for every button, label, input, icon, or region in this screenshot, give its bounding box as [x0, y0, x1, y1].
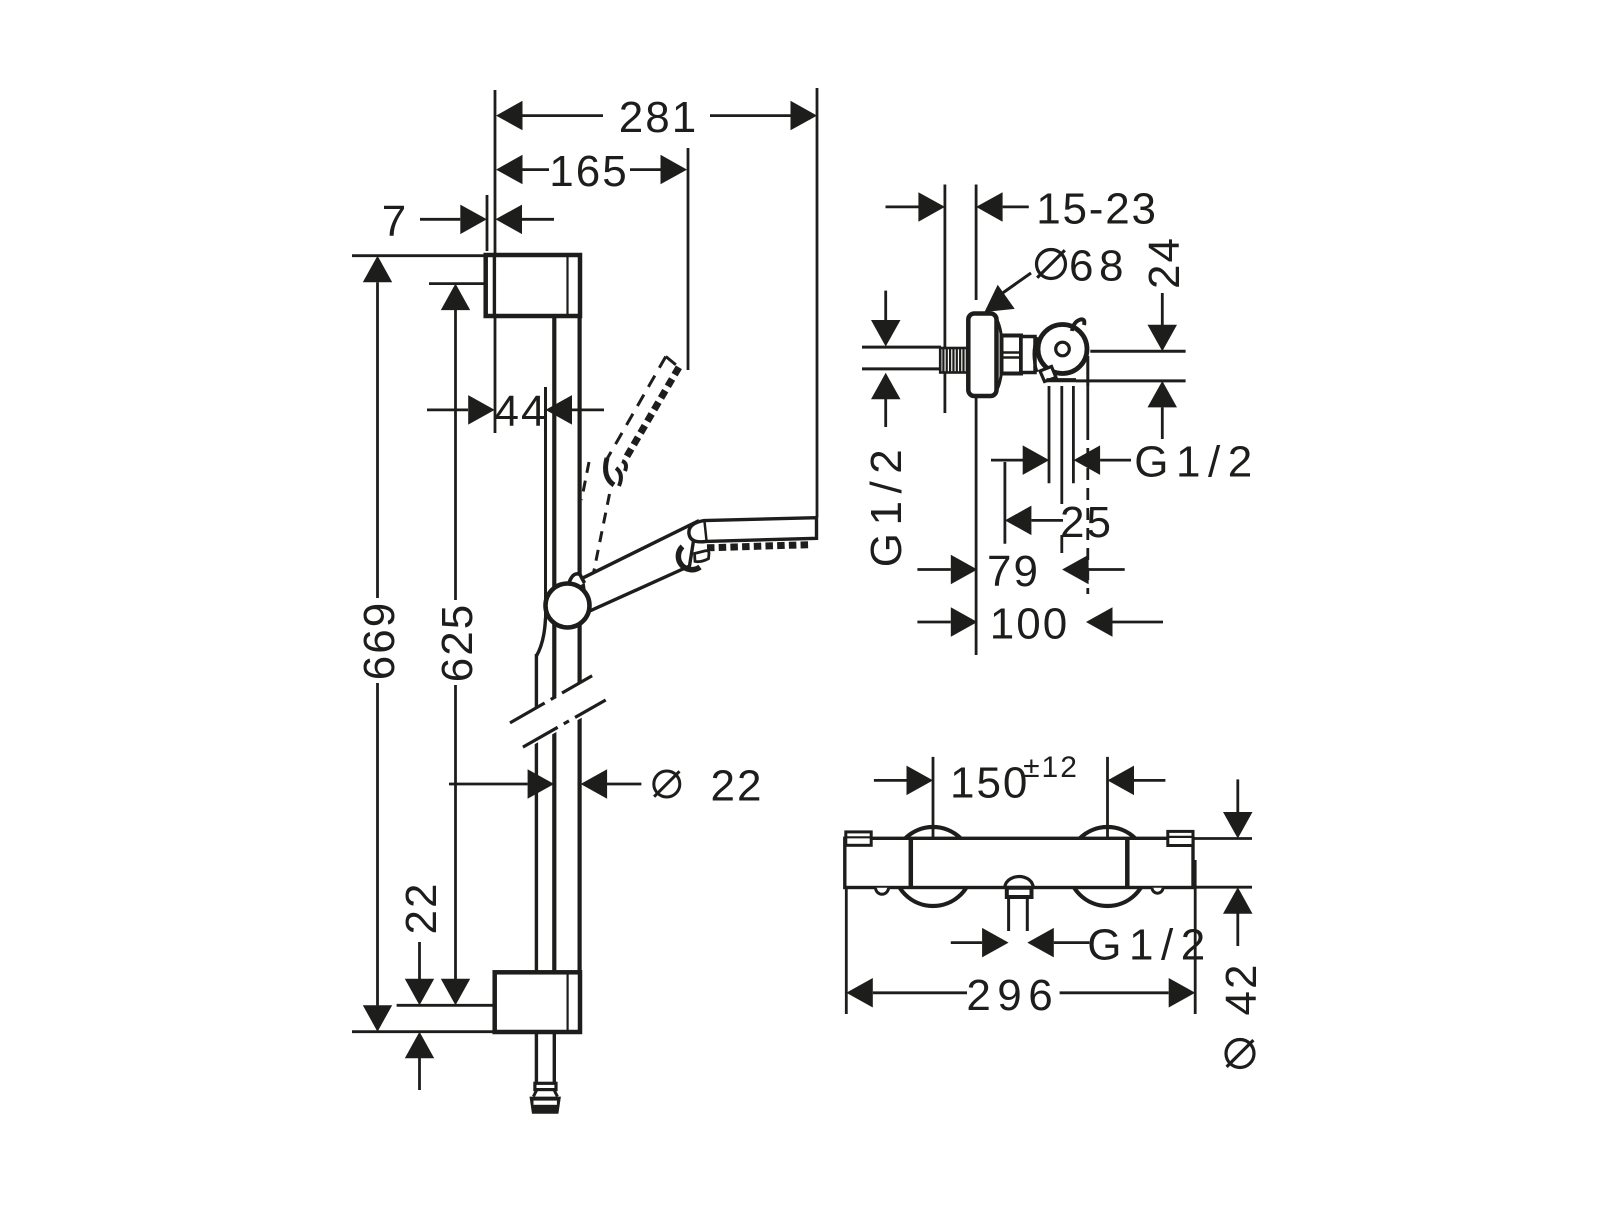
dim 625 line lower [454, 685, 457, 979]
dashed shower spray face teeth [627, 367, 679, 457]
dim 15-23 arrow left [918, 192, 945, 222]
wire: wall line lower [944, 372, 947, 413]
dim dia68 phi symbol [1037, 250, 1066, 279]
bottom bracket inner line [566, 974, 568, 1030]
wire: wall face chain line lower [975, 394, 978, 655]
dim dia22 arrow right [581, 769, 608, 799]
dim 22 arrow up [405, 1032, 434, 1059]
dim 625 line upper [454, 310, 457, 600]
dim 165 arrow right [661, 155, 688, 185]
holder knob circle [546, 584, 590, 628]
hose below bracket right [553, 1032, 556, 1083]
outlet hose line left [1007, 897, 1010, 931]
valve outlet foot tilted [1040, 367, 1056, 382]
dim 24 arrow up [1148, 381, 1178, 408]
svg-text:68: 68 [1069, 242, 1129, 291]
outlet dome [1005, 877, 1034, 888]
dim dia42 line upper [1236, 779, 1239, 812]
dim 165 line right [630, 168, 662, 171]
dim 669 arrow top [363, 256, 392, 283]
left service bump [876, 888, 889, 895]
wire: wall face chain line upper (x=976.1) [975, 185, 978, 301]
svg-text:25: 25 [1060, 498, 1113, 547]
dim 44 line left [427, 408, 468, 411]
dim 15-23 arrow right [976, 192, 1003, 222]
left knob centreline over arc [932, 827, 935, 839]
wire: 150 right extension [1106, 757, 1109, 838]
dia42 bottom reference line [1194, 886, 1252, 889]
dim 150 line left [874, 779, 907, 782]
wire: wall-plate edge extension (x=487) [486, 195, 489, 251]
svg-text:±12: ±12 [1023, 751, 1079, 784]
dim bottom G12 line right [1054, 941, 1090, 944]
dim 15-23 line right [1003, 205, 1029, 208]
dim 25 line [1031, 519, 1063, 522]
dim 44 arrow left [468, 395, 495, 425]
left knob circle [894, 827, 973, 906]
dashed shower dock hook [616, 461, 626, 486]
rail left edge [552, 316, 556, 698]
dim dia42 arrow down [1223, 812, 1253, 839]
valve right edge [1086, 356, 1089, 386]
right service bump [1152, 888, 1163, 894]
dim 296 line right [1060, 991, 1169, 994]
wire: 296 right extension [1194, 860, 1197, 1014]
wire: 165 right extension line (x=688) [687, 148, 690, 370]
wire: 150 left extension [932, 757, 935, 839]
shower head spray teeth [707, 545, 812, 548]
dim 100 arrow left [951, 607, 978, 637]
right knob front edge [1125, 838, 1130, 888]
svg-text:7: 7 [382, 197, 408, 246]
wire: foot left extension (x=1049) [1048, 386, 1051, 483]
dim 44 arrow right [546, 395, 573, 425]
dim bottom G12 arrow left [982, 928, 1009, 958]
right knob circle [1068, 827, 1147, 906]
break symbol diagonal 1 [510, 676, 592, 723]
dim outlet G12 line left [991, 459, 1024, 462]
dim 24 line lower [1161, 407, 1164, 439]
svg-text:100: 100 [990, 600, 1069, 649]
dim 79 arrow left [951, 555, 978, 584]
top bracket inner line left [493, 257, 495, 314]
dim 7 line left [420, 218, 460, 221]
wire: 281 right extension line (x=817) [816, 88, 819, 517]
wire: 25 extension line (x=1004.9) [1004, 462, 1007, 544]
dim 165 arrow left [496, 155, 523, 185]
outlet pipe bottom line [1076, 379, 1186, 382]
left end cap tab [846, 832, 871, 845]
svg-text:625: 625 [433, 603, 482, 682]
dim outlet G12 arrow right [1074, 445, 1101, 475]
dim 281 arrow right [791, 101, 818, 131]
right knob centreline over arc [1106, 827, 1109, 838]
dim 22 arrow down [405, 979, 434, 1006]
dim outlet G12 arrow left [1023, 445, 1049, 475]
inlet G1/2 arrow line upper [884, 291, 887, 323]
hose taper left [533, 1090, 537, 1097]
shower grip collar inner [695, 551, 710, 562]
dim 165 line left [523, 168, 550, 171]
wire: valve front extension solid [1086, 386, 1089, 428]
hose left edge lower [535, 732, 538, 973]
wire: left reference extension line (x=495) [494, 90, 497, 433]
dim dia22 phi symbol [654, 771, 680, 797]
hose left edge upper [535, 654, 538, 708]
dim dia42 arrow up [1223, 887, 1253, 914]
dim 625 arrow top [441, 284, 470, 311]
dim dia42 phi symbol [1226, 1040, 1254, 1068]
svg-text:44: 44 [495, 387, 548, 436]
dim 79 line left [917, 568, 950, 571]
escutcheon plate [968, 314, 996, 397]
svg-text:G1/2: G1/2 [862, 442, 911, 567]
wire: 625 bottom reference line (y=1005.3) [397, 1004, 494, 1007]
valve handle screw [1056, 342, 1070, 356]
inlet G1/2 arrow line lower [884, 399, 887, 427]
dim bottom G12 line left [951, 941, 982, 944]
dim dia22 line left [449, 783, 528, 786]
svg-text:150: 150 [950, 759, 1029, 808]
dim 150 arrow left [907, 766, 934, 796]
hose below bracket left [535, 1032, 538, 1083]
dim 669 line upper [376, 282, 379, 598]
dim 296 arrow right [1169, 978, 1196, 1008]
svg-text:15-23: 15-23 [1036, 185, 1158, 234]
union nut [1002, 336, 1022, 374]
svg-text:22: 22 [397, 882, 446, 935]
hose upper vertical segment (also 44 extension) [544, 387, 547, 620]
dim 7 arrow left [460, 205, 487, 235]
dim 669 arrow bottom [363, 1005, 392, 1031]
dim 24 line upper [1161, 293, 1164, 326]
shower grip [582, 522, 696, 613]
hose ferrule [535, 1083, 556, 1089]
valve handle nub [1072, 319, 1084, 331]
dim 100 arrow right [1086, 607, 1113, 637]
dashed shower grip edge lower [594, 494, 610, 573]
svg-text:281: 281 [619, 93, 698, 142]
svg-text:165: 165 [549, 147, 628, 196]
inlet G1/2 arrow down [871, 320, 901, 347]
union nut facet line [1002, 351, 1022, 353]
dim 150 arrow right [1108, 766, 1135, 796]
svg-text:G1/2: G1/2 [1134, 438, 1259, 487]
shower grip collar [678, 547, 700, 570]
dim 281 arrow left [496, 101, 523, 131]
svg-text:296: 296 [966, 971, 1059, 1020]
outlet collar [1007, 888, 1032, 897]
break symbol diagonal 2 [523, 700, 606, 747]
cartridge arcs [1034, 337, 1037, 372]
dim 79 arrow right [1062, 555, 1089, 584]
dashed shower grip edge upper [582, 462, 590, 500]
inlet G1/2 arrow up [871, 373, 901, 400]
svg-text:79: 79 [987, 547, 1040, 596]
dim 25 arrow [1005, 506, 1032, 535]
dim 669 line lower [376, 683, 379, 1005]
dim 281 line right [710, 114, 791, 117]
wire: 296 left extension [845, 889, 848, 1014]
dim dia22 arrow left [528, 769, 555, 799]
dia68 leader line [997, 273, 1031, 297]
threaded nipple body [940, 348, 967, 373]
wire: outlet centre extension (x=1061.8) [1060, 386, 1063, 504]
valve handle circle [1038, 325, 1087, 374]
svg-text:24: 24 [1140, 236, 1189, 289]
valve outlet foot line [1047, 378, 1077, 382]
dim 22 line lower [418, 1058, 421, 1090]
outlet pipe top line [1090, 350, 1185, 353]
dim 79 line right [1089, 568, 1125, 571]
dim bottom G12 arrow right [1027, 928, 1054, 958]
wire: 625 top reference line (y=283.6) [429, 282, 486, 285]
shower head body [689, 518, 817, 542]
thermostat body [845, 838, 1193, 887]
top bracket inner line right [566, 257, 568, 314]
dim 100 line left [917, 621, 950, 624]
right end cap tab [1168, 831, 1193, 845]
svg-text:669: 669 [355, 601, 404, 680]
dim 150 line right [1134, 779, 1165, 782]
dim 281 line left [523, 114, 604, 117]
wire: valve front extension dashed [1086, 428, 1089, 594]
dim 296 line left [873, 991, 967, 994]
dim 22 line upper [418, 942, 421, 979]
dim 7 line right [522, 218, 554, 221]
svg-text:22: 22 [711, 762, 764, 811]
dashed shower head left edge [607, 357, 666, 460]
valve connector [1021, 337, 1035, 373]
hose bend [536, 618, 545, 656]
dia68 leader arrowhead [985, 285, 1015, 312]
dim 44 line right [572, 408, 604, 411]
escutcheon front flange [997, 319, 1003, 391]
left knob front edge [909, 839, 914, 888]
wire: foot right extension (x=1073.4) [1072, 386, 1075, 483]
svg-text:42: 42 [1217, 963, 1266, 1016]
dim 24 arrow down [1148, 325, 1178, 352]
hose taper right [554, 1090, 558, 1097]
left reference line through bracket [494, 255, 496, 316]
inlet pipe top line [862, 346, 941, 349]
dim 625 arrow bottom [441, 979, 470, 1006]
hose nut [530, 1097, 561, 1114]
dashed shower dock cup arc [606, 458, 614, 485]
dim 7 arrow right [496, 205, 523, 235]
dim dia42 line lower [1236, 913, 1239, 946]
dia42 top reference line [1193, 837, 1252, 840]
wire: wall line upper (x=944.9) [944, 185, 947, 348]
outlet hose line right [1026, 897, 1029, 931]
holder knob nub [570, 574, 585, 589]
wire: 669 bottom reference line (y=1031.7) [352, 1030, 494, 1033]
dashed shower head top cap [666, 357, 679, 368]
break symbol white band [506, 678, 610, 749]
dim outlet G12 line right [1100, 459, 1131, 462]
threaded nipple hatching [942, 348, 944, 373]
dim 296 arrow left [846, 978, 873, 1008]
wire: 669 top reference line (y=255.7) [352, 254, 486, 257]
top wall bracket [486, 255, 580, 316]
dim dia22 line right [607, 783, 641, 786]
bottom wall bracket [495, 972, 580, 1032]
dim 100 line right [1113, 621, 1164, 624]
inlet pipe bottom line [862, 367, 941, 370]
shower head cap inner edge [705, 522, 707, 541]
dim 15-23 line left [886, 205, 921, 208]
rail right edge [577, 316, 581, 683]
